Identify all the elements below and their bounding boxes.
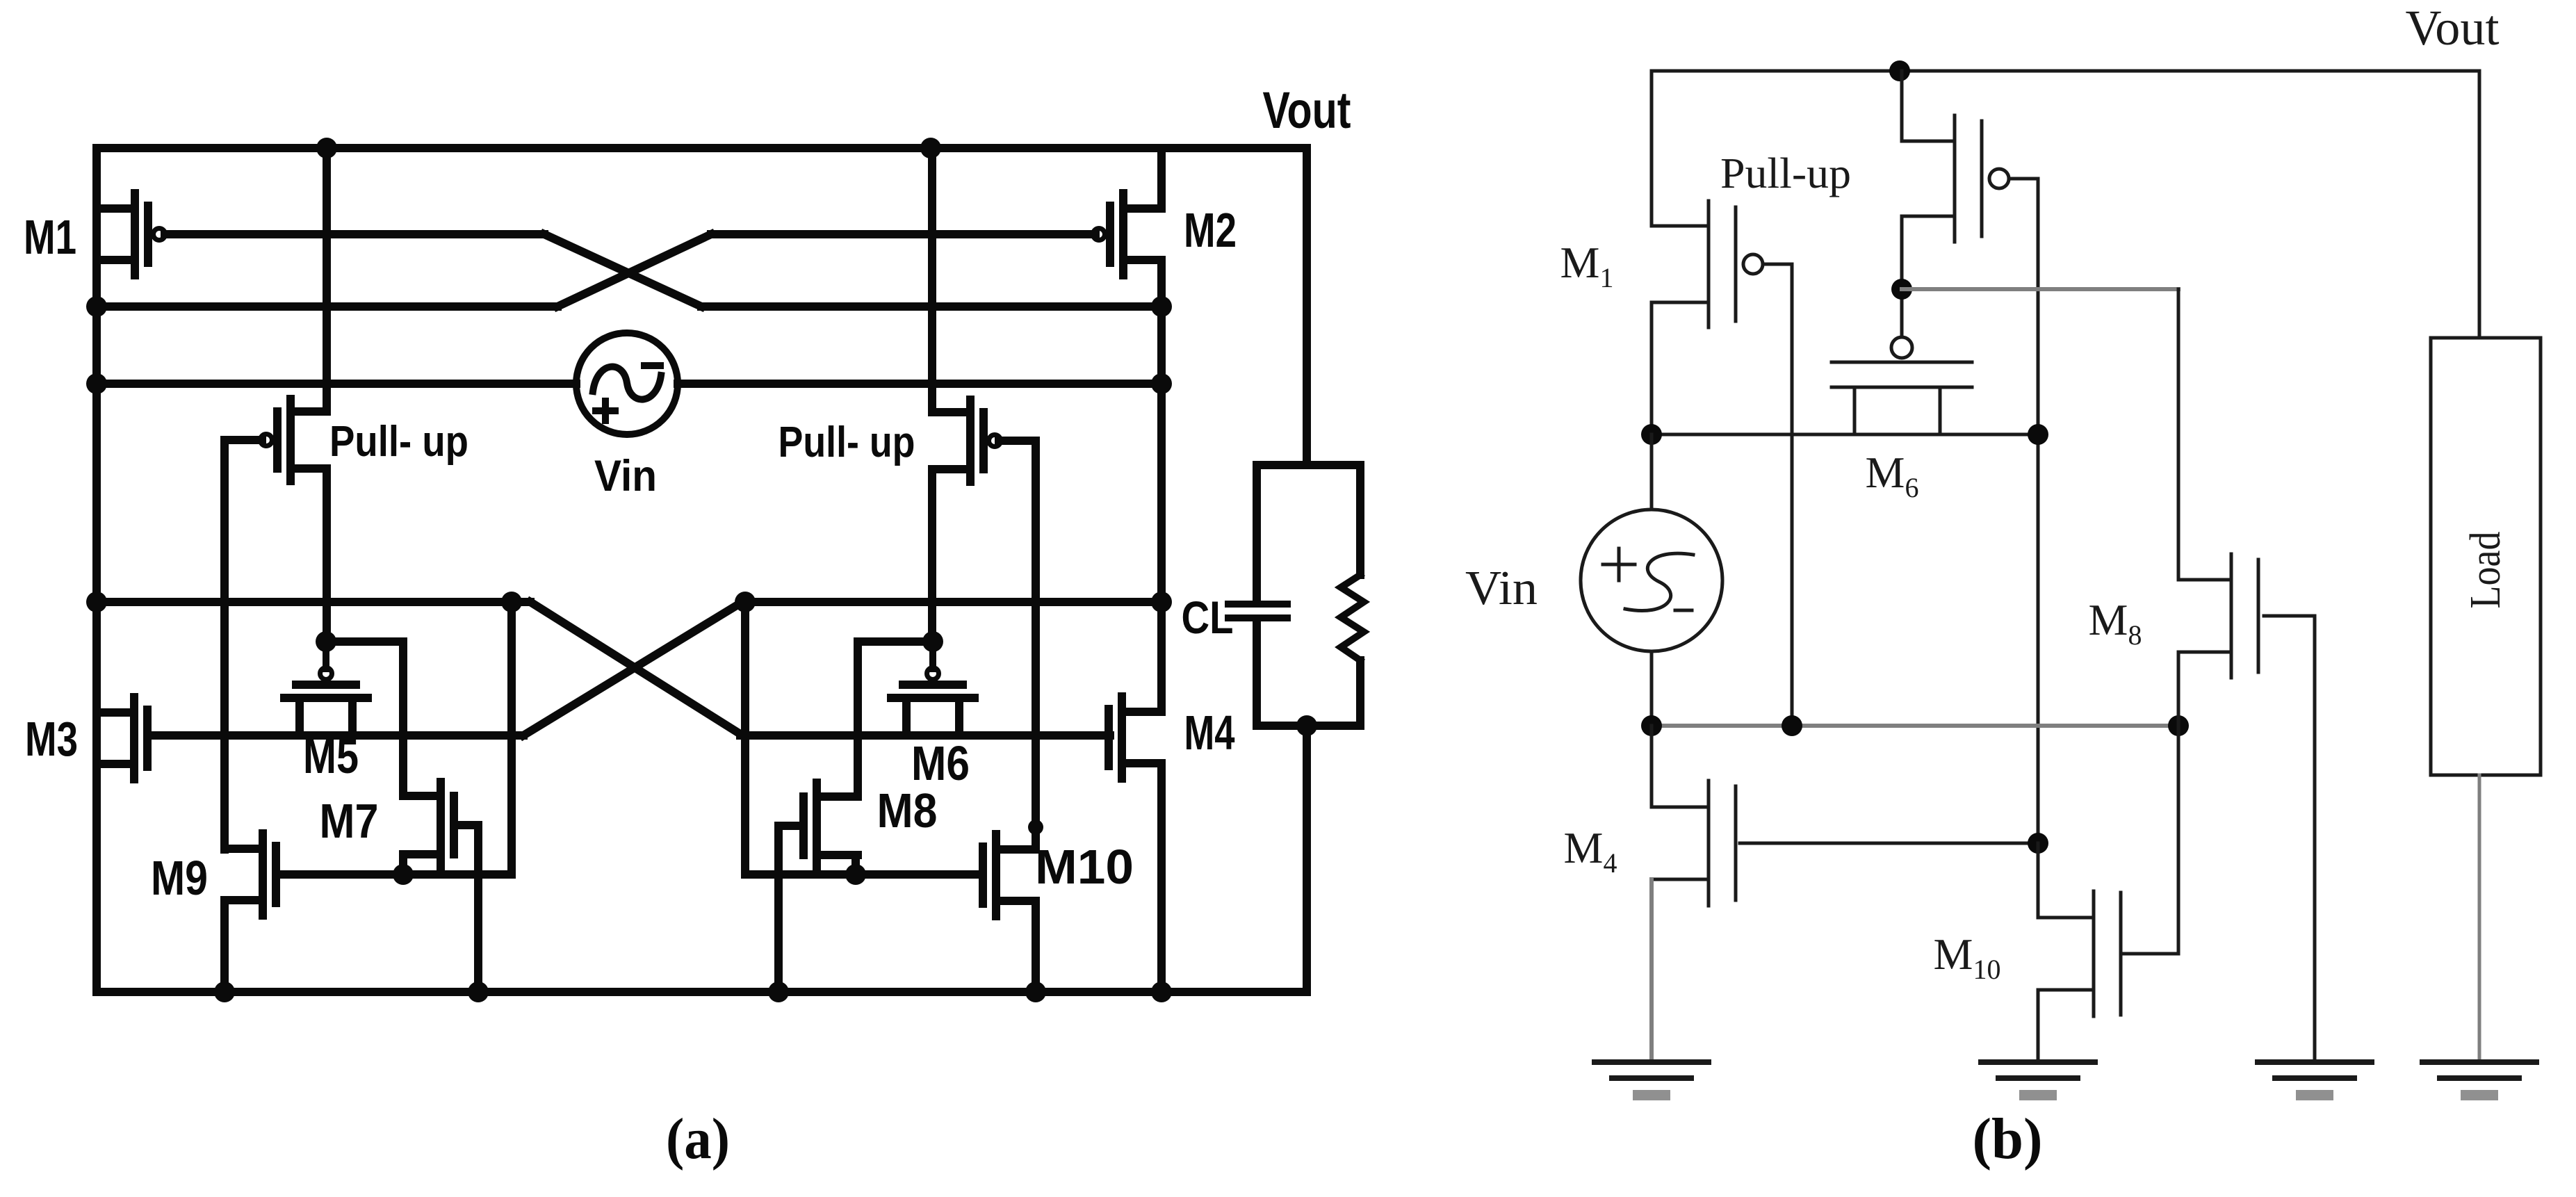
symbol: minus sign inside Vin (a) (644, 362, 660, 369)
wire: M2 drain to top rail (1157, 148, 1166, 209)
wire: M4(b) drain from y=1044 node (1650, 726, 1654, 807)
wire: y=866 line left segment (97, 598, 530, 606)
capacitor CL branch: lower left edge (1253, 621, 1261, 726)
node: M5 gate node (316, 631, 336, 652)
wire: M4(b) gate lead right to column (1740, 842, 2038, 845)
wire: M9 gate row y=1258 (276, 870, 512, 879)
ground: below load (b) (2422, 1059, 2536, 1065)
wire: M10 source down to bottom rail (1032, 901, 1040, 992)
svg-text:M3: M3 (25, 712, 78, 766)
svg-text:M7: M7 (320, 794, 379, 848)
svg-text:(b): (b) (1973, 1107, 2043, 1171)
transistor M4 (b) NMOS (1707, 781, 1711, 906)
wire: M4 source down to bottom rail (1157, 763, 1166, 992)
symbol: plus inside Vin (b) (1603, 563, 1635, 567)
svg-text:M8: M8 (877, 783, 938, 838)
wire: load bottom to ground (b) (2478, 775, 2481, 1062)
transistor M2 (PMOS, top right) (1119, 193, 1127, 275)
wire: M1 gate line y=337 left segment (165, 230, 544, 238)
ground: below M4 (b) (1595, 1059, 1709, 1065)
transistor Pull-up 2 (PMOS, middle right) (966, 400, 975, 482)
node: top rail junction above pull-up 2 (920, 138, 941, 158)
capacitor CL plates (1228, 601, 1287, 608)
wire: y=1058 line right segment (M4 gate) (740, 731, 1110, 740)
wire: M1(b) drain rail from top (1650, 71, 1654, 226)
wire: y=866 line right segment (742, 598, 1161, 606)
resistor lower right edge (1356, 660, 1364, 726)
source Vin (b): AC source circle (1581, 510, 1722, 651)
wire: pull-up(b) source down to M6 gate (1900, 216, 1904, 336)
svg-text:Pull- up: Pull- up (778, 418, 915, 466)
node: bottom rail at x=1120 (768, 982, 789, 1002)
transistor M8 (NMOS, right cluster) (813, 783, 821, 869)
wire: M6 gate node to M8 drain column (858, 642, 933, 796)
wire: M7 source down to M9 gate row (399, 854, 407, 874)
wire: lower-X diagonal descending (530, 602, 740, 734)
wire: pull-up1 gate lead left then down to M9 drain (225, 440, 262, 849)
svg-text:M10: M10 (1035, 840, 1134, 894)
wire: M10(b) gate lead from M8 source column (2124, 952, 2178, 956)
ground: below M10 (b) (1981, 1059, 2095, 1065)
wire: M2 source down (node column x=1671) (1157, 260, 1166, 712)
svg-text:Vin: Vin (1465, 562, 1538, 615)
wire: stem from M6 gate node to bubble (929, 642, 936, 669)
wire: M8(b) source down to y=1044 (2177, 652, 2180, 726)
node: left rail at y=441 (86, 296, 107, 317)
wire: M5 gate node to M7 drain column (326, 642, 403, 796)
svg-text:M2: M2 (1184, 203, 1237, 257)
node: y=1044 at x=2578 (1782, 715, 1802, 736)
symbol: plus sign inside Vin (a) (596, 407, 615, 414)
svg-text:M1: M1 (24, 210, 76, 264)
transistor M1 (b) PMOS (1707, 201, 1711, 327)
wire: pull-up2 source down to M6 gate node (928, 469, 936, 642)
svg-text:CL: CL (1182, 592, 1234, 643)
wire: gray row y=1044 (b) (1652, 724, 2178, 728)
svg-text:Pull-up: Pull-up (1720, 150, 1851, 197)
wire: M7 gate lead right then down to bottom rail (454, 825, 478, 992)
node: junction y=866 right with drop to M10 gate row (735, 592, 756, 612)
node: bottom rail at x=688 (468, 982, 489, 1002)
node: M6 gate node (b) (1891, 279, 1912, 300)
wire: pull-up1 drain up to top rail (323, 148, 331, 412)
wire: M9 source down to bottom rail (220, 900, 229, 992)
wire: upper-X diagonal rising to M2 gate (557, 234, 711, 307)
load box (b) (2431, 338, 2541, 775)
node: left end input row (1641, 424, 1662, 445)
node: M9 gate row at x=580 (393, 864, 414, 885)
wire: M8 gate lead left then down to bottom rail (778, 826, 804, 992)
symbol: S curve inside Vin (b) (1625, 553, 1693, 610)
node: x=1671 column at y=552 (1151, 373, 1172, 394)
wire: load bottom to ground rail (1303, 726, 1311, 992)
node: junction y=866 with drop to M9 gate row (501, 592, 522, 612)
wire: M10(b) source down to ground (2037, 990, 2040, 1062)
wire: bottom ground rail (a) (97, 988, 1307, 996)
resistor zigzag (1341, 575, 1364, 660)
transistor M10 (b) NMOS (2092, 891, 2096, 1016)
svg-text:M4: M4 (1184, 706, 1235, 760)
wire: stem from M5 gate node to bubble (323, 642, 329, 669)
wire: M10 gate row y=1258 (745, 870, 981, 879)
transistor M5 (PMOS, vertical, left cluster) (320, 668, 332, 680)
wire: pull-up2 gate lead right then down to M10 drain (999, 441, 1036, 849)
node: left rail at y=552 (86, 373, 107, 394)
wire: M8(b) gate right then down to ground (2264, 616, 2315, 1062)
node: M4 gate meets divider column (2028, 833, 2048, 854)
symbol: minus inside Vin (b) (1675, 609, 1692, 612)
svg-text:Load: Load (2462, 532, 2509, 609)
wire: pull-up(b) drain up to rail (1900, 71, 1904, 141)
wire: M1(b) gate to divider column (1763, 264, 1792, 726)
wire: M8 drain column (2177, 289, 2180, 580)
node: small junction on pull-up2 gate column (1028, 820, 1043, 835)
node: bottom rail at x=1671 (1151, 982, 1172, 1002)
wire: top rail (b) (1652, 70, 2479, 73)
svg-text:M6: M6 (911, 736, 970, 790)
wire: Vin bottom lead (1650, 651, 1654, 726)
wire: load box top edge (1257, 461, 1360, 469)
wire: M10(b) drain column segment (2037, 843, 2040, 918)
wire: M4(b) source down to ground (1649, 879, 1654, 1062)
svg-text:(a): (a) (666, 1107, 730, 1171)
node: right end input row (2028, 424, 2048, 445)
wire: Vin line right segment y=552 (678, 380, 1161, 388)
transistor M4 (NMOS, lower right) (1118, 697, 1126, 779)
svg-text:Vout: Vout (1263, 81, 1351, 139)
wire: load box bottom edge (1257, 722, 1360, 730)
node: y=1044 at x=3134 (2168, 715, 2189, 736)
node: y=1044 at x=2376 (1641, 715, 1662, 736)
transistor Pull-up 1 (PMOS, middle left) (286, 399, 295, 481)
wire: top supply rail (a) (97, 144, 1307, 152)
wire: Vout drop from top rail to load (1303, 148, 1311, 465)
transistor Pull-up (b) PMOS (1953, 115, 1957, 242)
wire: Vin top lead (1650, 434, 1654, 510)
wire: y=441 line right segment (701, 302, 1161, 311)
node: load bottom center (1296, 715, 1317, 736)
wire: lower-X diagonal ascending (523, 602, 742, 735)
wire: y=1058 line left segment (M3 gate) (148, 731, 523, 740)
node: left rail at y=866 (86, 592, 107, 612)
transistor M7 (NMOS, left cluster) (437, 782, 445, 868)
wire: pull-up(b) gate right then down (2009, 179, 2038, 918)
node: top rail junction (b) (1889, 60, 1910, 81)
source Vin (a): AC source circle (576, 333, 678, 434)
svg-text:Vout: Vout (2406, 0, 2500, 56)
transistor M8 (b) NMOS (2230, 554, 2233, 678)
symbol: sine wave inside Vin (a) (593, 367, 661, 400)
transistor M9 (NMOS, bottom left) (259, 833, 267, 915)
wire: pull-up2 drain up to top rail (928, 148, 936, 412)
capacitor CL branch: upper left edge (1253, 465, 1261, 601)
wire: M2 gate line y=337 right segment (711, 230, 1095, 238)
transistor M6 (PMOS, vertical, right cluster) (927, 668, 939, 680)
wire: pull-up1 source down to M5 gate node (323, 469, 331, 642)
wire: gray wire from M6 gate node toward M8 (1902, 287, 2178, 291)
svg-text:Pull- up: Pull- up (329, 418, 468, 466)
transistor M1 (PMOS, top left) (131, 193, 139, 275)
node: x=1671 column at y=866 (1151, 592, 1172, 612)
wire: Vout drop to load (b) (2478, 71, 2481, 338)
node: top rail junction above pull-up 1 (316, 138, 337, 158)
node: bottom rail at x=323 (214, 982, 235, 1002)
transistor M6 (b) PMOS vertical (1891, 337, 1912, 358)
wire: drop from y=866 to M9 gate row then corner (507, 602, 516, 874)
svg-text:M9: M9 (151, 851, 208, 905)
svg-text:Vin: Vin (594, 452, 657, 500)
wire: upper-X diagonal from M1 gate down to right (544, 234, 701, 307)
transistor M3 (NMOS, lower left) (130, 697, 138, 779)
wire: M8 source down to M10 gate row (851, 855, 860, 874)
node: x=1671 column at y=441 (1151, 296, 1172, 317)
svg-text:M5: M5 (303, 729, 359, 783)
wire: input node row y=625 (b) (1652, 433, 2038, 437)
wire: M1(b) source down to input node (1650, 302, 1654, 434)
wire: y=441 line left segment from left rail (97, 302, 557, 311)
node: bottom rail at x=1490 (1025, 982, 1046, 1002)
wire: Vin line left segment y=552 (97, 380, 576, 388)
ground: below M8 gate column (b) (2258, 1059, 2372, 1065)
transistor M10 (NMOS, bottom right) (992, 834, 1000, 916)
wire: left rail (a) (92, 148, 101, 992)
resistor (load) upper right edge (1356, 465, 1364, 575)
node: M10 gate row at x=1231 (845, 864, 866, 885)
wire: drop from y=866 right to M10 gate row (741, 602, 749, 874)
node: M6 gate node (922, 631, 943, 652)
